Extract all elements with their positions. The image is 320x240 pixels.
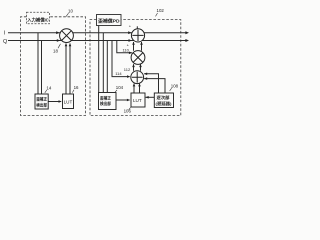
svg-text:歪補償PD: 歪補償PD [98,18,120,25]
wire I line [8,32,187,34]
wire delay box to adder114 path a [144,74,158,93]
wire tap Q to detector (left box) [41,41,43,95]
arrowheads [56,31,189,103]
svg-text:I: I [4,31,6,37]
svg-text:108: 108 [171,83,179,88]
arrow I into adder110 [128,31,131,34]
label box (solid): 歪補償PD [97,15,122,26]
block LUT-L [63,94,74,109]
wire tap Q to mixer 112 left input [117,41,132,53]
wire adder114 outputs up to mixer112 [133,64,135,71]
wire label-box PD down to detector (right box) [98,26,100,93]
svg-text:18: 18 [53,48,58,53]
mixer 112 (right middle) [131,51,145,65]
wire tap I to detector (right box) [102,33,104,93]
arrow into adder114 left [127,75,130,78]
wire tap Q to detector (right box) [106,41,108,93]
svg-text:112: 112 [124,67,131,72]
svg-text:LUT: LUT [133,98,142,103]
adder 110 (right top) [131,29,144,42]
adder 114 (right bottom) [131,71,144,84]
block detector-R [99,93,117,110]
arrow detL into LUT-L [59,100,62,103]
svg-text:102: 102 [157,8,165,13]
wire Q line [8,40,187,42]
arrow I into mixer18 [56,31,59,34]
dashed box 102 (right: distortion compensation unit) [90,20,181,116]
svg-text:Q: Q [3,39,7,45]
block delay unit [154,93,173,108]
texts [3,17,172,109]
wire LUT to mixer 18 riser b [69,44,71,95]
arrow into mixer112 left [129,52,132,55]
node stub above adder 110 [136,26,138,29]
arrow I output right [185,31,189,34]
svg-text:逐次部: 逐次部 [157,94,171,101]
svg-text:(遅延器): (遅延器) [156,101,173,106]
svg-text:110: 110 [123,48,130,53]
arrows up into mixer112 bottom [132,64,135,67]
svg-text:14: 14 [46,85,51,90]
arrow Q into adder110 [129,39,132,42]
svg-text:LUT: LUT [64,100,73,105]
arrows LUT-L up into mixer18 [65,43,68,46]
svg-text:104: 104 [116,85,124,90]
wire mixer112 outputs up to adder110 [133,42,135,51]
arrow detR into LUT-R [127,99,130,102]
label box (dashed): 入力補償IC [27,12,50,24]
svg-text:106: 106 [124,109,132,114]
block detector-L [35,94,48,109]
arrows from delay into adder114 right [144,73,147,76]
wire detectorL to LUT-L arrow [48,101,61,103]
dashed box 10 (left: input compensation unit) [21,17,86,116]
arrow delay into LUT-R [145,96,148,99]
block LUT-R [131,93,145,107]
svg-text:入力補償IC: 入力補償IC [26,17,49,24]
svg-text:10: 10 [68,8,73,13]
svg-text:検出部: 検出部 [100,100,111,107]
arrows up into adder114 bottom [133,83,136,86]
wire tap I to detector (left box) [37,33,39,94]
svg-text:114: 114 [115,71,122,76]
wire delay box to LUT-R [146,96,155,98]
wire LUT-R outputs up to adder114 [133,84,135,93]
arrows up into adder110 bottom [132,42,135,45]
wire detectorR to LUT-R arrow [116,99,129,101]
arrow Q output right [185,39,189,42]
wire LUT to mixer 18 riser a [65,44,67,95]
svg-text:16: 16 [74,85,79,90]
reference numerals [45,8,179,113]
arrow Q into mixer18 [57,39,60,42]
svg-text:検出部: 検出部 [36,101,47,108]
wire delay box to adder114 path b [144,79,165,93]
wire tap Q to adder 114 left input [112,41,130,77]
mixer 18 (quadrature modulator, left) [60,29,74,43]
